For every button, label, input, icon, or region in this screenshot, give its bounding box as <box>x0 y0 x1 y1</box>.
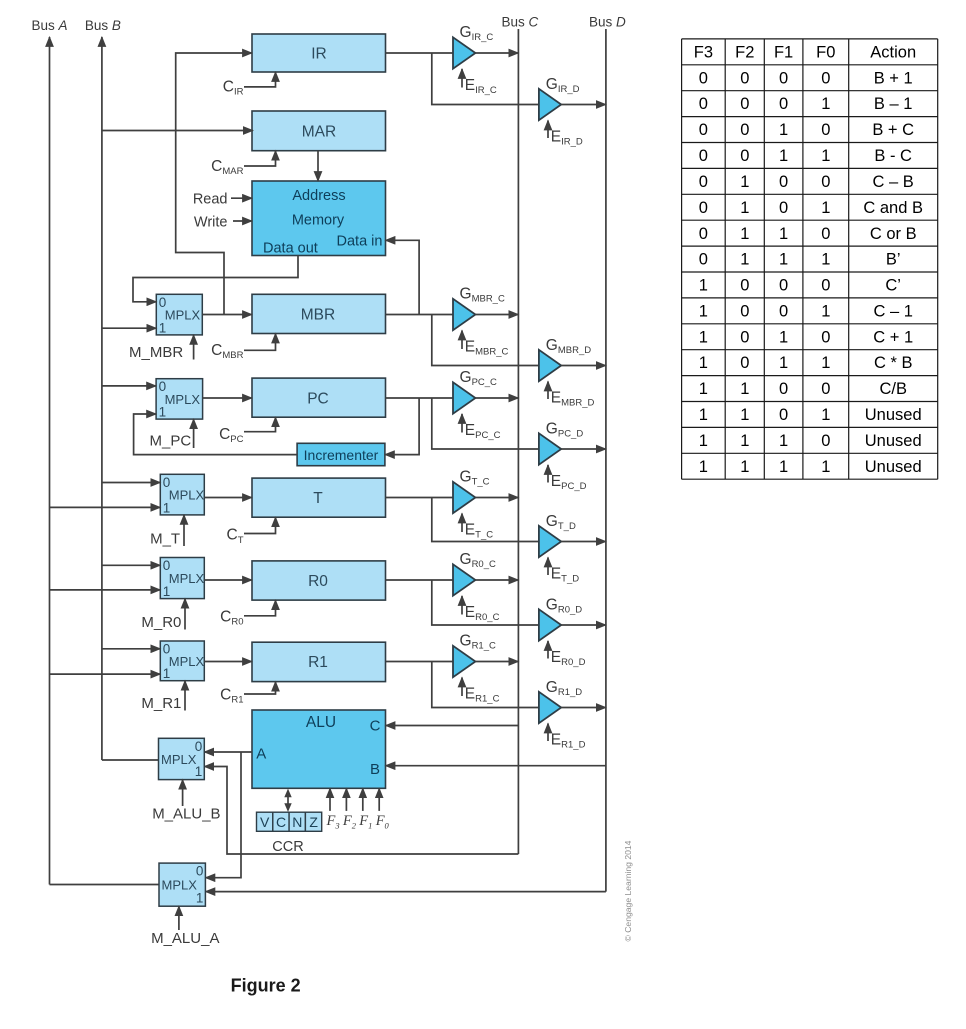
svg-text:0: 0 <box>699 95 708 113</box>
svg-text:1: 1 <box>740 380 749 398</box>
svg-text:1: 1 <box>779 328 788 346</box>
svg-text:MPLX: MPLX <box>165 392 201 407</box>
svg-text:T: T <box>313 490 323 507</box>
svg-text:Bus B: Bus B <box>85 18 121 33</box>
svg-text:0: 0 <box>740 95 749 113</box>
svg-text:C and B: C and B <box>863 199 923 217</box>
svg-text:1: 1 <box>699 406 708 424</box>
svg-text:1: 1 <box>740 406 749 424</box>
svg-text:1: 1 <box>779 432 788 450</box>
svg-text:Action: Action <box>870 43 916 61</box>
svg-text:Address: Address <box>292 188 345 204</box>
svg-text:V: V <box>260 814 270 830</box>
svg-text:C’: C’ <box>885 277 901 295</box>
svg-text:C – 1: C – 1 <box>873 302 912 320</box>
svg-text:1: 1 <box>159 320 167 335</box>
svg-text:0: 0 <box>821 121 830 139</box>
svg-text:1: 1 <box>163 584 171 599</box>
svg-text:F0: F0 <box>816 43 835 61</box>
svg-text:MPLX: MPLX <box>165 308 201 323</box>
svg-text:M_ALU_B: M_ALU_B <box>152 806 220 823</box>
svg-text:R1: R1 <box>308 654 328 671</box>
svg-text:1: 1 <box>821 199 830 217</box>
svg-text:0: 0 <box>740 302 749 320</box>
svg-text:F1: F1 <box>774 43 793 61</box>
svg-text:M_T: M_T <box>150 531 180 548</box>
svg-text:C/B: C/B <box>879 380 907 398</box>
svg-text:0: 0 <box>821 432 830 450</box>
svg-text:1: 1 <box>821 147 830 165</box>
svg-text:1: 1 <box>779 251 788 269</box>
svg-text:M_MBR: M_MBR <box>129 344 183 361</box>
svg-text:B’: B’ <box>886 251 901 269</box>
svg-text:0: 0 <box>196 864 204 879</box>
svg-text:B + 1: B + 1 <box>874 69 913 87</box>
svg-text:0: 0 <box>779 277 788 295</box>
svg-text:Bus D: Bus D <box>589 15 626 30</box>
svg-text:CCR: CCR <box>272 839 303 855</box>
svg-text:Data in: Data in <box>337 234 383 250</box>
svg-text:1: 1 <box>699 277 708 295</box>
svg-text:1: 1 <box>740 432 749 450</box>
svg-text:1: 1 <box>821 251 830 269</box>
svg-text:0: 0 <box>740 69 749 87</box>
svg-text:MPLX: MPLX <box>161 752 197 767</box>
svg-text:B - C: B - C <box>874 147 912 165</box>
svg-text:0: 0 <box>740 277 749 295</box>
svg-text:1: 1 <box>699 328 708 346</box>
svg-text:0: 0 <box>740 147 749 165</box>
svg-text:1: 1 <box>821 302 830 320</box>
svg-text:1: 1 <box>163 500 171 515</box>
svg-text:Incrementer: Incrementer <box>304 447 379 463</box>
svg-text:1: 1 <box>699 354 708 372</box>
svg-text:0: 0 <box>779 95 788 113</box>
svg-text:F3: F3 <box>694 43 713 61</box>
svg-text:1: 1 <box>821 458 830 476</box>
svg-text:MPLX: MPLX <box>169 571 205 586</box>
svg-text:IR: IR <box>311 46 327 63</box>
svg-text:1: 1 <box>196 891 204 906</box>
svg-text:Write: Write <box>194 214 228 230</box>
svg-text:MAR: MAR <box>302 124 336 141</box>
svg-text:C or B: C or B <box>870 225 917 243</box>
svg-text:Bus C: Bus C <box>502 15 539 30</box>
svg-text:N: N <box>292 814 302 830</box>
svg-text:M_R0: M_R0 <box>141 614 181 631</box>
svg-text:Unused: Unused <box>865 458 922 476</box>
svg-text:0: 0 <box>821 69 830 87</box>
svg-text:1: 1 <box>821 354 830 372</box>
svg-text:0: 0 <box>740 328 749 346</box>
svg-text:1: 1 <box>740 251 749 269</box>
svg-text:C + 1: C + 1 <box>873 328 913 346</box>
svg-text:Data out: Data out <box>263 240 318 256</box>
svg-text:MBR: MBR <box>301 307 335 324</box>
svg-text:R0: R0 <box>308 573 328 590</box>
svg-text:1: 1 <box>779 458 788 476</box>
svg-text:0: 0 <box>821 173 830 191</box>
svg-text:0: 0 <box>821 328 830 346</box>
svg-text:1: 1 <box>699 380 708 398</box>
svg-text:1: 1 <box>699 458 708 476</box>
svg-text:0: 0 <box>699 251 708 269</box>
svg-text:Z: Z <box>309 814 318 830</box>
svg-text:Bus A: Bus A <box>31 18 67 33</box>
svg-text:B – 1: B – 1 <box>874 95 913 113</box>
svg-text:Unused: Unused <box>865 432 922 450</box>
svg-text:Read: Read <box>193 191 228 207</box>
svg-text:0: 0 <box>699 121 708 139</box>
svg-text:PC: PC <box>307 390 329 407</box>
svg-text:1: 1 <box>740 173 749 191</box>
svg-text:1: 1 <box>821 95 830 113</box>
svg-text:B + C: B + C <box>872 121 914 139</box>
svg-text:0: 0 <box>779 302 788 320</box>
svg-text:1: 1 <box>699 302 708 320</box>
svg-text:C – B: C – B <box>873 173 914 191</box>
svg-text:MPLX: MPLX <box>169 488 205 503</box>
svg-text:0: 0 <box>699 199 708 217</box>
svg-text:1: 1 <box>779 121 788 139</box>
svg-text:0: 0 <box>699 173 708 191</box>
svg-text:0: 0 <box>740 121 749 139</box>
svg-text:1: 1 <box>779 147 788 165</box>
svg-text:0: 0 <box>779 380 788 398</box>
svg-text:1: 1 <box>779 225 788 243</box>
svg-text:0: 0 <box>821 225 830 243</box>
svg-text:0: 0 <box>821 380 830 398</box>
svg-text:Figure 2: Figure 2 <box>231 976 301 996</box>
svg-text:C: C <box>370 717 381 734</box>
svg-text:1: 1 <box>821 406 830 424</box>
svg-text:M_R1: M_R1 <box>141 695 181 712</box>
svg-text:0: 0 <box>779 406 788 424</box>
svg-text:Memory: Memory <box>292 213 345 229</box>
svg-text:C * B: C * B <box>874 354 913 372</box>
svg-text:F2: F2 <box>735 43 754 61</box>
svg-text:M_ALU_A: M_ALU_A <box>151 930 219 947</box>
svg-text:1: 1 <box>740 199 749 217</box>
svg-text:1: 1 <box>699 432 708 450</box>
svg-text:0: 0 <box>821 277 830 295</box>
svg-text:A: A <box>256 746 266 763</box>
svg-text:1: 1 <box>779 354 788 372</box>
svg-text:1: 1 <box>740 458 749 476</box>
svg-text:Unused: Unused <box>865 406 922 424</box>
svg-text:MPLX: MPLX <box>169 654 205 669</box>
svg-text:0: 0 <box>699 225 708 243</box>
svg-text:0: 0 <box>779 69 788 87</box>
svg-text:ALU: ALU <box>306 714 336 731</box>
svg-text:© Cengage Learning 2014: © Cengage Learning 2014 <box>623 840 633 941</box>
svg-text:0: 0 <box>779 199 788 217</box>
svg-text:0: 0 <box>699 69 708 87</box>
svg-text:0: 0 <box>699 147 708 165</box>
svg-text:1: 1 <box>740 225 749 243</box>
svg-text:M_PC: M_PC <box>150 433 192 450</box>
svg-text:B: B <box>370 761 380 778</box>
svg-text:0: 0 <box>779 173 788 191</box>
svg-text:C: C <box>276 814 286 830</box>
svg-text:0: 0 <box>740 354 749 372</box>
svg-text:MPLX: MPLX <box>162 878 198 893</box>
